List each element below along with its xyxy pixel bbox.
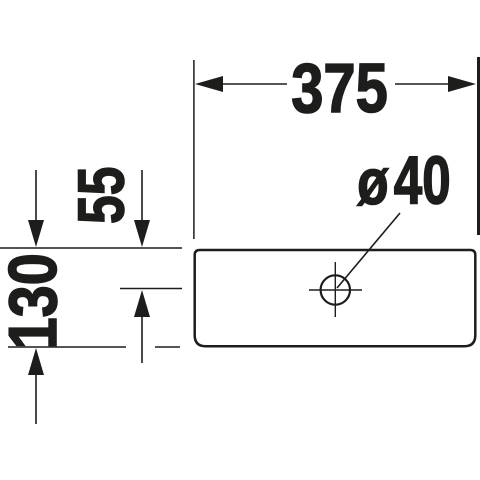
arrowhead right (375): [448, 76, 476, 92]
dimension text 375: [291, 49, 388, 127]
svg-text:ø: ø: [357, 147, 389, 218]
svg-text:375: 375: [291, 49, 388, 127]
down arrow stem at x=36 (130 dim): [35, 170, 37, 223]
down arrowhead at x=36: [28, 220, 44, 247]
up arrow stem at x=142 (55 dim): [141, 316, 143, 363]
dimension line 375 right segment: [395, 83, 450, 85]
arrowhead left (375): [195, 76, 223, 92]
cistern outline rectangle: [195, 250, 476, 346]
svg-text:55: 55: [66, 167, 138, 224]
reference line bottom (y=347): [8, 346, 126, 348]
up arrow stem at x=36 (130 dim): [35, 375, 37, 424]
extension line right (for 375): [477, 57, 480, 235]
diameter symbol ø: [357, 147, 389, 218]
crosshair vertical line: [334, 262, 336, 317]
down arrow stem at x=142 (55 dim): [141, 170, 143, 223]
up arrowhead at x=36: [28, 348, 44, 375]
dimension line 375 left segment: [220, 83, 287, 85]
svg-text:130: 130: [0, 253, 71, 349]
drain hole circle: [321, 275, 350, 304]
leader line to ø40 label: [337, 213, 400, 288]
reference line top (y=248): [0, 247, 182, 249]
dimension text 55 (rotated): [66, 167, 138, 224]
extension line left (for 375): [193, 60, 195, 239]
reference line middle (y=288.5): [120, 288, 182, 290]
crosshair horizontal line: [309, 289, 362, 291]
down arrowhead at x=142: [134, 220, 150, 247]
dimension text 40: [394, 142, 451, 218]
up arrowhead at x=142: [134, 290, 150, 317]
reference line bottom dash: [155, 346, 180, 348]
dimension text 130 (rotated): [0, 253, 71, 349]
svg-text:40: 40: [394, 142, 451, 218]
